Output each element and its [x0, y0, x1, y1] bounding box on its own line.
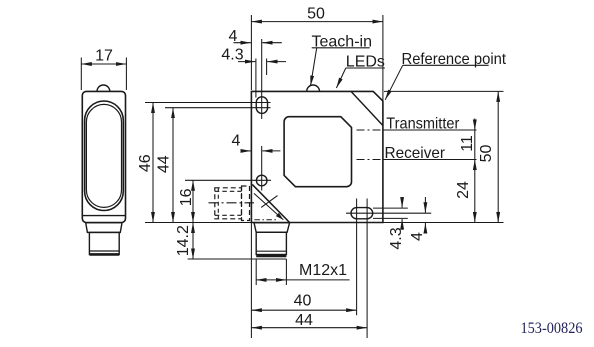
hole crosshair vertical: [261, 146, 263, 191]
svg-text:50: 50: [307, 6, 325, 23]
bottom-right mounting slot: [351, 208, 373, 219]
slot bottom edge extended right: [373, 217, 408, 219]
dim 44 line: [172, 108, 174, 223]
M12 threaded barrel (front view): [256, 232, 286, 254]
ext line y180.3 (16 ref / hole center): [185, 179, 271, 181]
M12 connector collar (front view): [254, 223, 290, 233]
bevel face edge (diagonal): [351, 91, 383, 125]
M12x1 dim line with outward arrows: [256, 279, 286, 281]
ext line y102.5 (46 ref, to slot center): [145, 102, 271, 104]
svg-text:11: 11: [459, 135, 476, 152]
dim 40 line: [251, 309, 356, 311]
svg-text:16: 16: [178, 188, 195, 206]
dashed thread inner lines: [217, 188, 219, 219]
dim 46 line: [152, 103, 154, 223]
svg-text:4.3: 4.3: [388, 227, 405, 249]
transmitter axis dash-dot: [357, 129, 385, 131]
svg-text:4: 4: [229, 28, 238, 45]
receiver axis dash-dot: [357, 159, 385, 161]
ext line y107.7 (44 ref): [165, 107, 271, 109]
leader LEDs: [336, 68, 345, 88]
bottom long extension line: [145, 222, 504, 224]
svg-text:44: 44: [295, 312, 313, 329]
front view body outline with chamfered top-right corner: [251, 91, 383, 222]
dim 4 top-left: arrows/lines: [234, 42, 251, 44]
dim 50 top: dimension line: [251, 21, 383, 23]
slot crosshair vertical: [261, 39, 263, 119]
dim 11 line: [474, 130, 476, 160]
lens window inner line: [86, 104, 121, 207]
dashed rotated M12 connector barrel (pointing left): [215, 188, 242, 219]
dashed collar: [242, 186, 250, 221]
dim 11 upper outside arrow: [474, 119, 476, 131]
thread end band (front view): [256, 250, 286, 252]
top-left mounting slot: [256, 97, 267, 114]
hidden bottom edge of rotated connector: [254, 219, 278, 221]
slot top edge extended right: [373, 207, 408, 209]
dim 4 mid-left (hole offset): [241, 150, 251, 152]
optical window (front view octagon): [284, 117, 351, 187]
slot crosshair horizontal: [346, 212, 431, 214]
dim 17: extension lines: [80, 58, 82, 91]
svg-text:46: 46: [137, 154, 154, 172]
slot ext verticals (40/44 refs): [356, 199, 358, 316]
svg-text:4: 4: [232, 133, 241, 150]
dim 50 top: extension lines: [250, 15, 252, 90]
leader Reference point: [385, 65, 403, 100]
svg-text:14.2: 14.2: [175, 225, 192, 256]
teach button bump (front view): [307, 85, 320, 91]
svg-text:50: 50: [478, 145, 495, 163]
lens window outer (side view stadium): [85, 101, 124, 211]
dim 17: dimension line: [81, 63, 126, 65]
svg-text:4: 4: [409, 232, 426, 241]
dim 14.2 line: [192, 223, 194, 260]
svg-text:24: 24: [455, 181, 472, 199]
dim 4.3 top-left: arrows/lines: [238, 61, 255, 63]
thread end band (side view): [89, 250, 119, 252]
rotated connector centerline: [209, 202, 255, 204]
svg-text:44: 44: [156, 155, 173, 173]
M12x1 ext lines: [255, 259, 257, 285]
dim 4.3 bottom-right arrows: [401, 197, 403, 208]
housing bottom seam line: [82, 215, 125, 217]
dim 44 line: [251, 327, 367, 329]
wedge cross tick: [261, 196, 277, 208]
dim 50 right line: [497, 91, 499, 222]
M12 threaded barrel (side view): [89, 232, 119, 254]
wedge inner edge with arrow: [254, 193, 283, 219]
sensor side-view body outline: [82, 91, 125, 222]
M12 connector collar (side view): [86, 223, 122, 233]
swivel wedge hypotenuse: [252, 184, 289, 222]
top edge extended right (50 right ref): [384, 90, 504, 92]
left bottom ext line: [250, 223, 252, 338]
dim 16 line: [192, 180, 194, 222]
dim 4 bottom-right arrows: [424, 197, 426, 213]
dim 24 line: [474, 160, 476, 223]
ext line y259 (connector bottom): [188, 258, 287, 260]
svg-text:17: 17: [95, 48, 113, 65]
svg-text:153-00826: 153-00826: [521, 320, 583, 337]
svg-text:M12x1: M12x1: [299, 262, 347, 279]
svg-text:40: 40: [294, 292, 312, 309]
fixing hole: [256, 175, 267, 186]
leader Teach-in: [311, 48, 317, 86]
dim 4.3 top-left: ext lines: [255, 59, 257, 98]
svg-text:4.3: 4.3: [221, 47, 243, 64]
teach button bump (side view): [97, 85, 110, 91]
